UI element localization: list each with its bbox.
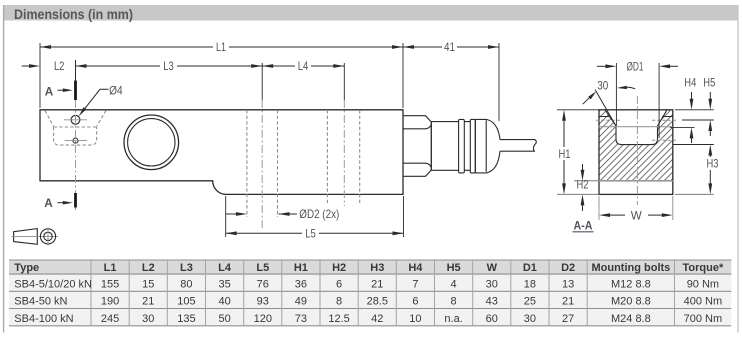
svg-text:50: 50 [218,313,230,325]
bottom extension line right of section [675,193,714,195]
svg-text:8: 8 [336,296,342,308]
svg-text:SB4-100 kN: SB4-100 kN [14,313,73,325]
svg-text:190: 190 [101,296,119,308]
hole 1 centre line [261,100,263,229]
svg-text:8: 8 [451,296,457,308]
page right border [737,5,739,333]
vertical rules [91,260,675,326]
svg-text:ØD1: ØD1 [627,60,644,74]
pocket outline with chamfers [605,110,667,145]
svg-text:93: 93 [257,296,269,308]
H3 dimension [707,145,719,195]
angle 30 annotation [583,78,636,126]
svg-text:D2: D2 [561,262,575,274]
svg-text:80: 80 [180,279,192,291]
svg-text:Mounting bolts: Mounting bolts [591,262,670,274]
svg-text:13: 13 [562,279,574,291]
svg-text:L5: L5 [305,227,316,241]
hatched cross-section area [599,110,673,181]
extension line L5 right [403,196,405,237]
svg-text:21: 21 [142,296,154,308]
svg-text:L2: L2 [54,59,65,73]
centre line of section A-A at x=75.5 [75,85,77,210]
gland spacer lines [464,122,470,171]
svg-text:H3: H3 [707,157,719,171]
svg-text:60: 60 [486,313,498,325]
svg-text:H5: H5 [447,262,461,274]
H4 dimension [684,76,696,143]
mounting hole O4 top [64,115,87,124]
svg-text:700 Nm: 700 Nm [684,313,723,325]
membrane line (hatch bottom) [599,180,673,182]
svg-text:Ø4: Ø4 [109,84,123,98]
svg-text:6: 6 [412,296,418,308]
load cell body outline [40,110,403,195]
cable [500,140,536,152]
svg-text:21: 21 [562,296,574,308]
svg-text:M12 8.8: M12 8.8 [611,279,651,291]
first angle projection symbol [12,228,59,246]
svg-text:27: 27 [562,313,574,325]
svg-text:30: 30 [142,313,154,325]
dimension L4 [262,59,344,73]
svg-text:4: 4 [451,279,457,291]
extension line hole2 centre [343,63,345,100]
svg-text:M24 8.8: M24 8.8 [611,313,651,325]
svg-text:ØD2 (2x): ØD2 (2x) [299,207,339,221]
hidden pocket outline (dashed) [45,111,106,146]
svg-text:6: 6 [336,279,342,291]
hole 2 centre line [343,100,345,206]
svg-text:400 Nm: 400 Nm [684,296,723,308]
page left border [3,5,5,333]
gland dome cap [475,119,500,172]
svg-text:SB4-5/10/20 kN: SB4-5/10/20 kN [14,279,92,291]
svg-text:245: 245 [101,313,119,325]
svg-text:30: 30 [486,279,498,291]
svg-text:12.5: 12.5 [328,313,349,325]
thread relief lines [599,116,673,118]
svg-text:30: 30 [524,313,536,325]
svg-text:n.a.: n.a. [444,313,462,325]
svg-text:D1: D1 [523,262,537,274]
svg-text:L4: L4 [218,262,232,274]
svg-text:43: 43 [486,296,498,308]
svg-text:41: 41 [444,40,455,54]
svg-text:W: W [487,262,498,274]
svg-text:7: 7 [412,279,418,291]
svg-text:H2: H2 [577,178,589,192]
svg-text:A: A [45,85,54,99]
lower small hole [65,138,87,143]
svg-text:L1: L1 [216,40,226,54]
svg-text:H1: H1 [559,147,571,161]
H2 dimension [574,164,599,211]
svg-text:36: 36 [295,279,307,291]
gland ring 2 [470,119,475,172]
section marker A bottom [44,193,75,210]
svg-text:A: A [44,196,53,210]
section marker A top [45,81,76,101]
extension line gland end [498,43,500,121]
svg-text:155: 155 [101,279,119,291]
header row background [9,260,731,274]
data row 1 [14,279,719,291]
svg-text:73: 73 [295,313,307,325]
section centre line [636,96,638,205]
svg-text:H3: H3 [370,262,384,274]
svg-text:Torque*: Torque* [683,262,724,274]
svg-text:42: 42 [371,313,383,325]
svg-text:76: 76 [257,279,269,291]
tick L2/L3 junction [75,60,77,81]
dimension L5 [226,227,404,241]
svg-text:A-A: A-A [574,219,593,233]
svg-text:10: 10 [409,313,421,325]
svg-text:L4: L4 [298,59,309,73]
hidden hole 1 walls [247,110,278,217]
svg-text:L3: L3 [180,262,193,274]
extension line hole1 centre [261,63,263,100]
hidden hole 2 walls [327,110,359,204]
seat depth grey line [599,126,673,128]
svg-text:L1: L1 [104,262,117,274]
extension line left edge [39,43,41,108]
svg-text:90 Nm: 90 Nm [687,279,719,291]
header labels [14,262,724,274]
dimension OD1 [597,60,678,139]
section outer outline [599,110,673,195]
svg-text:Dimensions (in mm): Dimensions (in mm) [14,6,133,22]
svg-text:H2: H2 [332,262,346,274]
svg-text:L2: L2 [142,262,155,274]
cable gland hex nut [403,116,431,177]
header bar [3,5,738,22]
W dimension [599,196,673,222]
svg-text:30: 30 [597,78,608,92]
svg-text:H4: H4 [684,76,696,90]
thread depth dashed lines [596,119,677,121]
svg-text:35: 35 [218,279,230,291]
svg-text:21: 21 [371,279,383,291]
svg-text:135: 135 [177,313,195,325]
svg-text:120: 120 [254,313,272,325]
svg-text:H5: H5 [703,76,715,90]
svg-text:15: 15 [142,279,154,291]
svg-text:Type: Type [14,262,39,274]
svg-text:49: 49 [295,296,307,308]
extension line L5 left [225,196,227,237]
H5 dimension [703,76,715,136]
load button bore (large circle) [124,115,179,170]
extension lines right of section [670,110,714,145]
svg-text:L3: L3 [163,59,174,73]
svg-text:SB4-50 kN: SB4-50 kN [14,296,67,308]
svg-text:40: 40 [218,296,230,308]
dimension 41 [403,40,499,54]
svg-text:18: 18 [524,279,536,291]
svg-text:25: 25 [524,296,536,308]
cable bore hidden line [652,139,677,141]
H1 dimension [557,110,599,195]
data row 3 [14,313,722,325]
svg-text:H4: H4 [408,262,423,274]
svg-text:M20 8.8: M20 8.8 [611,296,651,308]
dimension L3 [76,59,263,73]
label O4 with leader [79,84,123,117]
svg-text:28.5: 28.5 [367,296,388,308]
gland neck [431,122,458,171]
svg-text:W: W [631,208,643,222]
data row 2 [14,296,722,308]
svg-text:105: 105 [177,296,195,308]
data rows background [9,274,731,326]
label A-A [573,219,594,233]
extension line body right edge [402,43,404,108]
gland ring 1 [459,119,465,172]
horizontal rules [9,260,731,326]
dimension L2 (outside arrow) [22,59,65,73]
svg-text:H1: H1 [294,262,308,274]
svg-text:L5: L5 [256,262,269,274]
dimension L1 [40,40,403,54]
dimension OD2 (2x) [226,207,340,221]
